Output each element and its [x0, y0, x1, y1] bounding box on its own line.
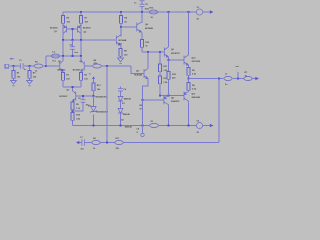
- transistor Q2 current mirror right (PNP): [73, 25, 82, 40]
- node dot 107,66: [106, 65, 108, 67]
- wire: right collector column x81: [80, 40, 82, 61]
- svg-text:V-: V-: [89, 73, 91, 75]
- wire: feedback column x107: [106, 66, 108, 143]
- svg-text:BC550C: BC550C: [73, 69, 81, 71]
- wire: zobel/feedback column x219: [218, 79, 220, 143]
- node dot 46,66: [45, 65, 47, 67]
- resistor R4 feedback in: [93, 59, 101, 68]
- voltage flag V- circle: [196, 120, 202, 134]
- svg-text:BC550C: BC550C: [60, 96, 68, 98]
- resistor R15 220 driver emitter: [167, 60, 177, 96]
- resistor R6 22: [119, 12, 127, 27]
- svg-text:BZX84C4V7: BZX84C4V7: [96, 95, 108, 98]
- diode D2: [118, 105, 133, 129]
- wire: branch y110.8 to cap C6: [73, 102, 84, 111]
- diode D1: [118, 97, 132, 105]
- resistor R emitter left: [61, 73, 70, 88]
- node dot 93.5,96: [93, 95, 95, 97]
- wire: VAS base drop: [131, 66, 144, 74]
- transistor Q11 output PNP: [184, 92, 189, 126]
- node dot 160,95.5: [159, 95, 161, 97]
- node dot 13.5,66: [13, 65, 15, 67]
- resistor R16 on top rail: [149, 8, 157, 19]
- resistor R9 tail emitter: [71, 102, 81, 113]
- wire: right base line y66: [93, 65, 132, 67]
- wire: VAS collector column: [147, 52, 149, 69]
- svg-text:MJE340: MJE340: [135, 73, 143, 76]
- node dot 93.5,125.5: [93, 125, 95, 127]
- resistor RE2 0.22: [187, 79, 197, 92]
- zener diode D3: [88, 106, 109, 114]
- capacitor C7 feedback: [80, 137, 85, 150]
- wire: Q8 base line y100: [143, 99, 164, 101]
- out net flag stub: [237, 72, 239, 79]
- node dot 83,96: [82, 95, 84, 97]
- transistor Q1 current mirror left (PNP): [63, 25, 73, 40]
- resistor Rfb1: [92, 138, 100, 150]
- port arrow OUT: [253, 78, 256, 80]
- resistor RE1 0.22: [187, 68, 197, 79]
- svg-text:2SC4793: 2SC4793: [171, 52, 180, 55]
- node dot 63,40: [62, 39, 64, 41]
- node dot 168.5,95.5: [168, 95, 170, 97]
- svg-text:BC550C: BC550C: [58, 69, 66, 71]
- wire: lower supply rail y125.5: [73, 125, 197, 127]
- wire: PNP out base line: [169, 95, 184, 97]
- wire: output rail y78.5: [189, 78, 254, 80]
- node dot 238,78.5: [237, 78, 239, 80]
- svg-text:1N4148: 1N4148: [124, 98, 132, 101]
- port arrow V+: [203, 11, 210, 13]
- node dot mirror base tie: [72, 28, 74, 30]
- svg-text:few: few: [53, 60, 57, 62]
- wire: input to diff base: [46, 65, 55, 67]
- wire: mirror output line y40 to Q3 base: [63, 39, 114, 41]
- voltage flag V+ circle: [196, 7, 202, 21]
- net flag arrow above input: [10, 58, 12, 60]
- node dot 81,56: [80, 55, 82, 57]
- wire: y95.5 bias bottom link: [160, 95, 169, 97]
- transistor Q3 (NPN): [114, 35, 121, 47]
- wire: y27 line to Q4 base: [121, 26, 137, 28]
- wire: y52 VAS node line: [142, 51, 164, 53]
- node dot 160,52: [159, 51, 161, 53]
- wire: left collector column x63: [62, 40, 64, 61]
- resistor R13 bias 10k: [92, 83, 102, 96]
- ground under R1: [11, 81, 17, 86]
- capacitor C2 between y40 and y56: [70, 40, 79, 56]
- svg-text:BC546B: BC546B: [119, 39, 127, 42]
- bias resistor Ra: [158, 52, 168, 72]
- resistor R emitter Q3: [119, 47, 128, 59]
- inductor L1: [224, 74, 232, 86]
- probe stub with open circle: [137, 100, 145, 137]
- node dot top rail x142: [141, 11, 143, 13]
- node dot top rail x168: [168, 11, 170, 13]
- inductor L2 on y56: [52, 52, 60, 63]
- resistor Rload 10: [244, 72, 252, 80]
- resistor R5: [61, 12, 70, 26]
- node dot 72.5,110.8: [72, 110, 74, 112]
- capacitor C4 clamp: [118, 87, 127, 97]
- ground under R3: [27, 81, 33, 86]
- capacitor C5 on V+ column: [140, 4, 145, 6]
- node dot top rail x121: [120, 11, 122, 13]
- bias resistor Rb: [158, 72, 168, 96]
- svg-text:out: out: [236, 65, 240, 68]
- wire: zener column: [93, 96, 95, 126]
- node dot top rail x189: [188, 11, 190, 13]
- wire: upper link y56: [46, 55, 81, 57]
- wire: riser 46: [45, 56, 47, 66]
- svg-text:2SA1837: 2SA1837: [171, 100, 180, 103]
- resistor R10 1k under Q4: [140, 40, 150, 53]
- node dot 142.5,125.5: [142, 125, 144, 127]
- wire: input line y66: [14, 65, 47, 67]
- node dot 219,78.5: [218, 78, 220, 80]
- svg-text:BC560C: BC560C: [50, 28, 58, 30]
- svg-text:2SA1943: 2SA1943: [192, 96, 201, 99]
- svg-text:1N4148: 1N4148: [125, 126, 133, 129]
- transistor Q9 VAS (NPN): [143, 69, 149, 101]
- node dot 142.5,100: [142, 99, 144, 101]
- ground under Q3 emitter: [118, 58, 124, 64]
- node dot 168.5,60: [168, 59, 170, 61]
- wire: emitter join y87: [63, 87, 81, 91]
- node dot 188.5,125.5: [188, 125, 190, 127]
- wire: Q3 collector column: [120, 27, 122, 37]
- transistor Q2b diff left (NPN): [55, 56, 63, 73]
- svg-text:2SC5200: 2SC5200: [192, 61, 201, 63]
- resistor R on lower rail: [150, 121, 159, 128]
- svg-text:few: few: [75, 52, 79, 54]
- resistor R7: [79, 12, 88, 26]
- node dot 168.5,125.5: [168, 125, 170, 127]
- capacitor C1 series input: [19, 60, 27, 71]
- transistor Q5 diff right (NPN mirrored): [81, 56, 93, 73]
- node dot 120.5,125.5: [120, 125, 122, 127]
- resistor R3 to ground: [28, 66, 37, 81]
- wire: NPN out base line y60: [169, 59, 184, 61]
- wire: top supply rail: [63, 11, 196, 13]
- resistor R emitter right: [79, 73, 88, 88]
- node dot 121,27: [120, 26, 122, 28]
- svg-text:BC546B: BC546B: [145, 27, 153, 30]
- node dot 29.5,66: [29, 65, 31, 67]
- svg-text:BC560C: BC560C: [83, 28, 91, 30]
- node dot 148,52: [147, 51, 149, 53]
- wire: V+ feed column x142: [141, 1, 143, 12]
- svg-text:1N4148: 1N4148: [123, 113, 131, 116]
- port arrow V-: [203, 125, 210, 127]
- transistor Q6 driver (NPN): [164, 12, 169, 60]
- resistor Rfb2: [115, 138, 123, 150]
- node dot 107,142.5: [106, 142, 108, 144]
- resistor R1 to ground: [12, 66, 21, 81]
- capacitor C6: [78, 96, 90, 106]
- node dot 72,40: [72, 39, 74, 41]
- transistor Q7 tail source (NPN mirrored): [73, 91, 94, 102]
- transistor Q10 output NPN: [184, 12, 189, 68]
- node dot 81,40: [80, 39, 82, 41]
- node dot top rail x81: [80, 11, 82, 13]
- node dot 72.5,87: [72, 86, 74, 88]
- transistor Q8 driver PNP: [164, 96, 169, 126]
- input port IN: [5, 64, 14, 68]
- port arrow NF (left): [76, 141, 79, 144]
- wire: mirror base tie down: [72, 29, 74, 40]
- resistor R14 5.6k: [71, 113, 81, 126]
- resistor R2 series: [34, 62, 42, 73]
- node dot 63,56: [62, 55, 64, 57]
- node dot 72,56: [72, 55, 74, 57]
- transistor Q4 (NPN): [137, 12, 142, 40]
- flag bar top of C5: [140, 0, 145, 2]
- net flag arrow above R13: [92, 76, 95, 79]
- node dot 188.5,78.5 output node: [188, 78, 190, 80]
- wire: feedback bottom line y142.5: [79, 142, 219, 144]
